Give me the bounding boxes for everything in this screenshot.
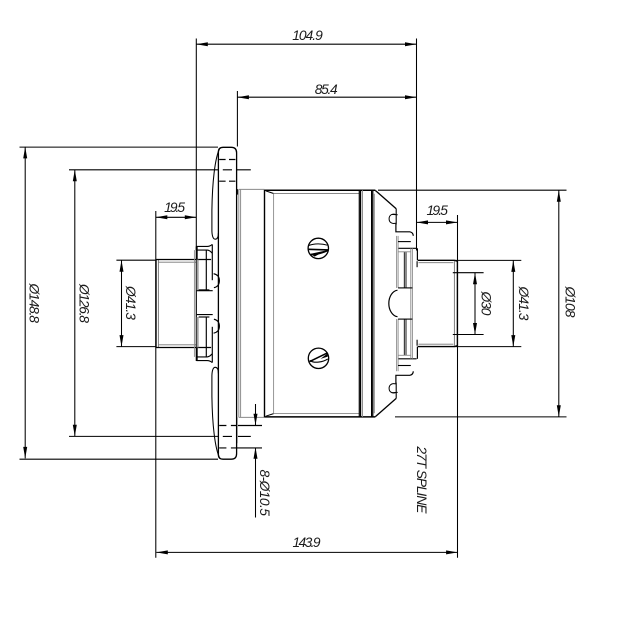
right spline shaft [418, 260, 458, 346]
svg-text:Ø126.8: Ø126.8 [76, 283, 91, 323]
spline tick marks [416, 261, 418, 346]
shoulder ring faces [416, 248, 418, 358]
bolt circle centerline top [223, 169, 251, 171]
svg-text:104.9: 104.9 [292, 28, 323, 43]
dim 85.4 [237, 91, 416, 147]
bearing drum ring thin edges [239, 189, 265, 417]
main body chamfer slants [266, 191, 274, 416]
dim dia 108 [378, 190, 567, 417]
screw S1 [308, 238, 328, 258]
svg-text:Ø30: Ø30 [479, 291, 494, 316]
svg-text:19.5: 19.5 [164, 200, 185, 215]
dim dia 41.3 left [116, 260, 156, 346]
right shaft spline root thin lines [419, 261, 455, 346]
screw S2 [308, 348, 328, 368]
svg-text:Ø41.3: Ø41.3 [123, 285, 138, 320]
dim 19.5 left [156, 211, 197, 558]
dim dia 148.8 [20, 147, 219, 459]
main body outline [265, 190, 376, 417]
flange dished face arc top [212, 148, 220, 239]
bottom lock tab [389, 383, 398, 399]
svg-text:Ø108: Ø108 [563, 286, 578, 318]
dim 19.5 right [417, 215, 458, 558]
right end cap steps bottom [396, 359, 417, 384]
svg-text:Ø41.3: Ø41.3 [516, 286, 531, 321]
flange outer profile [218, 147, 236, 459]
left hub shoulder steps top [156, 244, 213, 361]
right end cap steps top [396, 224, 417, 249]
bolt hole hidden lines bottom [219, 426, 262, 448]
left output shaft end face [155, 260, 157, 348]
svg-text:19.5: 19.5 [426, 203, 448, 218]
svg-text:8-Ø10.5: 8-Ø10.5 [257, 470, 272, 517]
side gear boss arc bottom [214, 319, 220, 333]
top lock tab [389, 209, 398, 225]
svg-text:27T SPLINE: 27T SPLINE [414, 445, 429, 514]
PART_GEOMETRY [156, 147, 457, 459]
svg-text:Ø148.8: Ø148.8 [26, 283, 41, 324]
svg-text:143.9: 143.9 [293, 535, 321, 550]
dim 8-dia10.5 leader [254, 404, 258, 518]
left hub shoulder steps bottom [156, 317, 212, 363]
dim dia 126.8 [69, 170, 219, 437]
left hub thin lines [194, 250, 198, 357]
ring step notch at flange joint [237, 189, 239, 194]
svg-text:85.4: 85.4 [315, 82, 338, 97]
dim 143.9 [156, 550, 457, 554]
flange dished face arc bottom [212, 367, 220, 458]
dim dia 41.3 right [454, 260, 521, 346]
side gear boss arc top [214, 274, 220, 288]
dim 104.9 [196, 39, 416, 251]
bolt hole hidden lines top [219, 160, 236, 182]
end cap inner thin verticals [397, 236, 413, 371]
main body chamfer thin lines [274, 194, 360, 414]
bolt circle centerline bottom [223, 435, 251, 437]
left shaft chamfer edge [158, 260, 196, 347]
end cap thin ribs [398, 252, 411, 355]
right cone slants [375, 191, 396, 417]
end cap inner ribs [398, 242, 412, 366]
ring gear flange thin edge [363, 190, 375, 417]
ring section right faces [372, 190, 373, 417]
cross shaft boss arc [389, 290, 398, 317]
flange right face lower thin extension [237, 417, 239, 443]
main body right face pair [359, 190, 360, 417]
main body left face [264, 190, 266, 417]
DIMENSIONS [20, 39, 567, 558]
dim dia 30 [453, 273, 484, 335]
